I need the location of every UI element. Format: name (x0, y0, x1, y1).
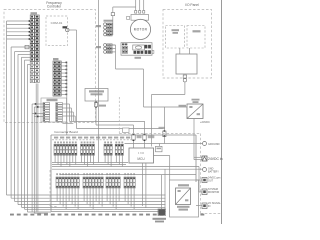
motor terminal housing (127, 15, 149, 21)
wire F4 to fuse F1 (96, 108, 134, 134)
panel key group 2 dashed (187, 26, 205, 49)
strip TB1 top label (31, 12, 38, 14)
group A label (96, 25, 101, 27)
wire bundle left of TB1 (7, 20, 31, 195)
fuse F3 label (159, 127, 166, 129)
display cable connector (183, 75, 186, 82)
svg-text:Connector Board: Connector Board (54, 130, 78, 134)
CN10 left exit wires (32, 103, 48, 213)
svg-text:MCU: MCU (137, 157, 145, 161)
svg-text:Controller: Controller (47, 5, 62, 9)
io signal label (208, 202, 221, 208)
svg-text:OUT: OUT (208, 180, 214, 183)
connector 24VDC in (202, 156, 207, 161)
svg-text:BATTERY: BATTERY (208, 170, 219, 173)
wire drop 2 (15, 52, 31, 202)
svg-text:COM-01: COM-01 (51, 21, 63, 25)
junction block CN10 (41, 98, 67, 122)
MCU right wires (154, 156, 170, 181)
module COM-01 dashed box (46, 16, 68, 46)
svg-text:MOTOR: MOTOR (134, 28, 148, 32)
page edge border (221, 0, 223, 224)
motor junction box (121, 43, 154, 56)
PS2 bottom label (177, 206, 190, 211)
power supply PS1 label (192, 99, 200, 103)
strip A bottom drops (36, 84, 38, 212)
wire drop 3 (18, 54, 30, 204)
motor supply lines (135, 0, 145, 13)
terminal strip TB1 (30, 15, 39, 83)
wire drop 5 (25, 60, 31, 209)
system monitor connector (199, 189, 207, 195)
test point dashed row (52, 137, 131, 140)
bottom connector feed wires (162, 169, 166, 209)
wire drop 6 (28, 64, 31, 212)
fuse F2 value label (148, 135, 155, 138)
power supply PS2 converter (176, 188, 191, 205)
supply feed wire (97, 0, 99, 163)
io signal connector (196, 203, 207, 209)
bottom bus lines (7, 195, 166, 212)
svg-text:I / O: I / O (138, 151, 144, 155)
board row2 connector group CN7 (124, 173, 135, 209)
wire COM-01 to fuse area (69, 30, 77, 129)
wire bus to F3 (77, 128, 163, 132)
24VDC out label (208, 177, 221, 183)
key group 1 label (172, 29, 180, 34)
board row2 connector group CN6 (106, 173, 120, 209)
terminal strip TB2 (53, 61, 61, 96)
panel key group 1 dashed (166, 26, 185, 49)
bottom signal label row (10, 214, 204, 216)
MCU bottom wires (143, 163, 146, 208)
bottom cable connector (158, 209, 166, 216)
system monitor label (208, 188, 220, 194)
display cable wire (152, 82, 185, 147)
24VDC out connector (196, 178, 207, 183)
PS2 inner label (178, 184, 189, 186)
svg-text:24VDC in: 24VDC in (208, 157, 223, 161)
motor junction box stub label (135, 57, 142, 59)
board mid bus lines (52, 163, 203, 193)
TB2 wires to right (61, 62, 67, 135)
MCU top connector (156, 146, 163, 152)
power supply PS2 enclosure (170, 180, 199, 217)
strip TB2 top label (53, 58, 59, 60)
board row1 connector group CN3 (104, 142, 123, 167)
connector board outline (51, 135, 196, 212)
group B label (96, 46, 101, 48)
I/O panel dashed enclosure (163, 10, 212, 79)
wire with inline jumper (11, 45, 30, 198)
battery connector circle (203, 168, 207, 172)
transformer T1 (85, 89, 108, 102)
COM-01 output connector (63, 26, 70, 31)
aux contact group B (104, 44, 116, 54)
svg-text:MONITOR: MONITOR (208, 191, 220, 194)
svg-text:GROUND: GROUND (208, 142, 220, 146)
board row2 connector group CN4 (56, 173, 79, 209)
bottom dashed cable boundary (50, 170, 57, 207)
wire drop 4 (22, 57, 31, 207)
key group 2 label (193, 30, 201, 32)
board row1 connector group CN2 (81, 142, 95, 167)
aux relay output wire (107, 45, 188, 107)
fuse F1 (132, 134, 135, 141)
fuse F3 (163, 107, 166, 144)
aux contact group A (104, 23, 113, 36)
bottom caption label (153, 218, 167, 223)
group B riser dashed border (118, 97, 120, 134)
display unit (176, 48, 197, 74)
wire 24VDC in to left (195, 157, 197, 159)
ground connector circle (125, 142, 207, 147)
motor M1 (130, 19, 150, 39)
fuse F4 under transformer (95, 101, 106, 108)
dashed group border around fuse area (119, 134, 221, 214)
group A header label (104, 20, 113, 22)
battery connector label (208, 167, 219, 173)
board row2 connector group CN5 (83, 173, 103, 209)
PS1 input label (179, 105, 187, 107)
fuse wires down (134, 121, 145, 148)
fuse F1 value label (137, 135, 142, 138)
group A riser wire (111, 7, 136, 35)
svg-text:IN: IN (208, 205, 211, 208)
MCU U1 (129, 148, 154, 163)
svg-text:I/O Panel: I/O Panel (185, 3, 199, 7)
PS1 output wire (194, 119, 202, 160)
svg-text:+24VDC: +24VDC (200, 120, 210, 124)
fuse F2 (143, 134, 146, 141)
frequency controller dashed enclosure (4, 10, 96, 123)
power supply PS1 (187, 104, 203, 119)
board row1 connector group CN1 (54, 142, 77, 167)
CN10 right exit wires (62, 104, 144, 123)
